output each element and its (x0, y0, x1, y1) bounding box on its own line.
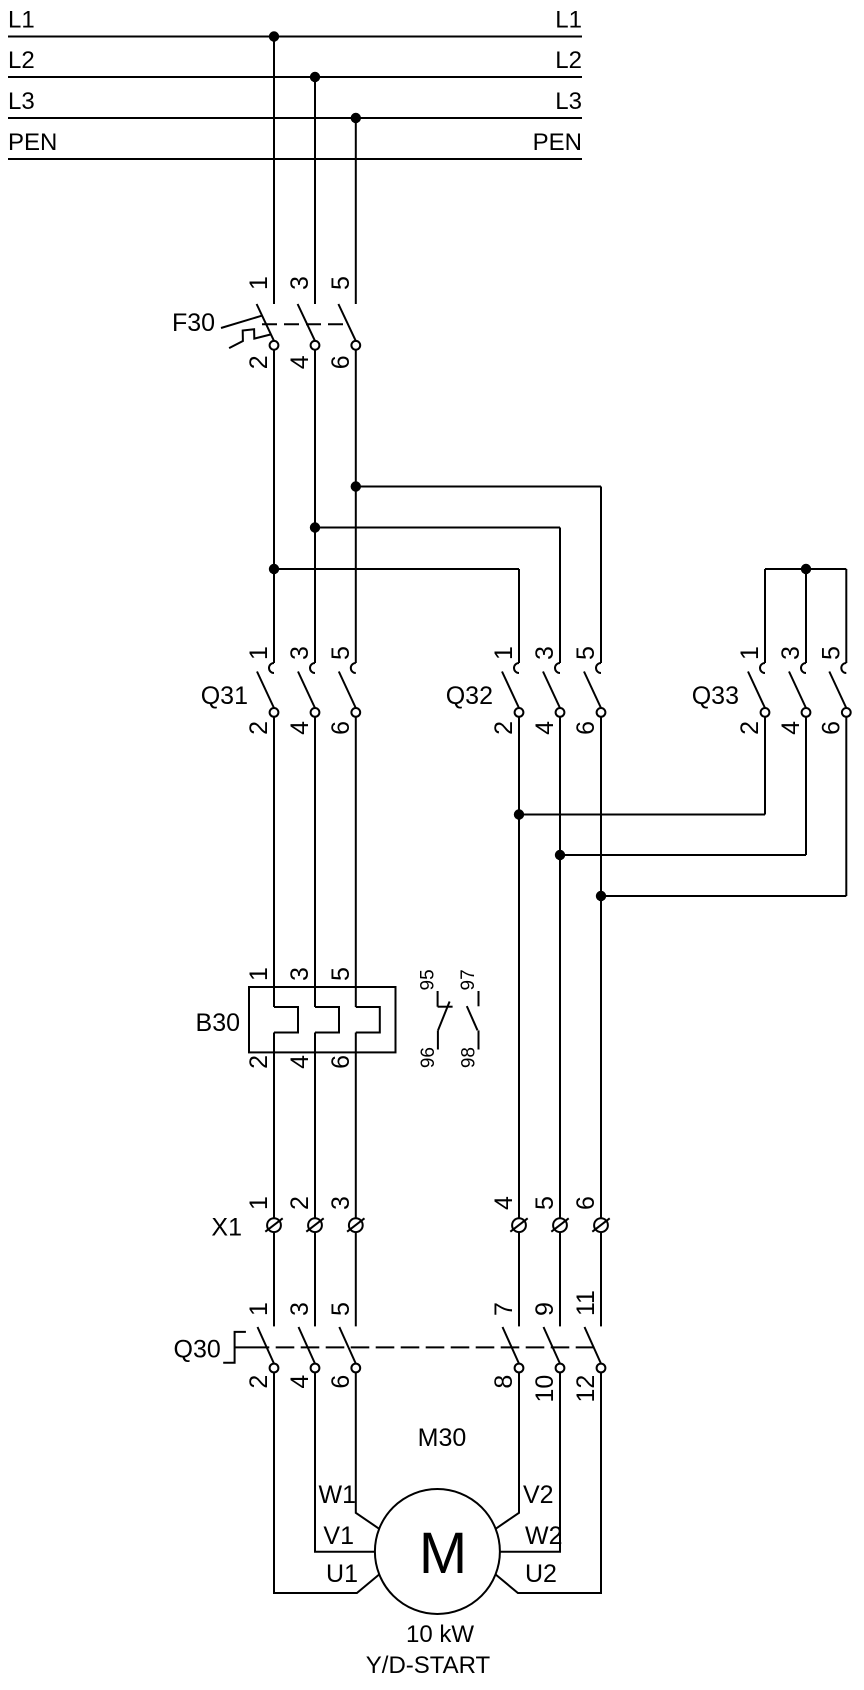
svg-text:4: 4 (286, 721, 314, 735)
svg-text:V1: V1 (323, 1522, 354, 1550)
wire W2 feed (500, 1372, 560, 1551)
svg-text:V2: V2 (523, 1481, 554, 1509)
svg-text:97: 97 (458, 969, 479, 990)
wire (518, 717, 520, 1218)
svg-text:11: 11 (572, 1290, 600, 1316)
wire (273, 1052, 275, 1218)
svg-text:4: 4 (286, 1375, 314, 1389)
svg-text:9: 9 (531, 1302, 559, 1316)
svg-text:3: 3 (531, 646, 559, 660)
svg-text:3: 3 (286, 967, 314, 981)
svg-text:2: 2 (245, 721, 273, 735)
wire (559, 717, 561, 1218)
wire (600, 1232, 602, 1326)
wire (600, 717, 602, 1218)
wire W1 feed (356, 1372, 380, 1529)
delta link wire horizontal (601, 895, 846, 897)
svg-text:L2: L2 (8, 47, 35, 74)
wire (273, 350, 275, 663)
svg-text:96: 96 (418, 1047, 439, 1068)
branch wire vertical to Q32 (518, 569, 520, 663)
Q30 contact 9-10 (531, 1302, 564, 1402)
branch wire vertical to Q32 (600, 487, 602, 664)
svg-text:2: 2 (245, 355, 273, 369)
junction dot at (315,527.5) (310, 522, 320, 532)
wire V1 feed (315, 1372, 375, 1551)
wire (805, 569, 807, 663)
svg-text:2: 2 (286, 1196, 314, 1210)
svg-text:4: 4 (777, 721, 805, 735)
svg-text:2: 2 (736, 721, 764, 735)
branch wire horizontal (274, 568, 519, 570)
svg-text:3: 3 (327, 1196, 355, 1210)
motor circle (375, 1489, 500, 1614)
svg-text:2: 2 (490, 721, 518, 735)
delta link wire vertical to Q33 (845, 717, 847, 896)
Q30 contact 11-12 (572, 1290, 605, 1402)
svg-text:6: 6 (572, 721, 600, 735)
wire (273, 37, 275, 305)
wire (355, 1232, 357, 1326)
svg-text:7: 7 (490, 1302, 518, 1316)
svg-text:10: 10 (531, 1375, 559, 1403)
svg-text:Y/D-START: Y/D-START (366, 1652, 491, 1679)
junction dot star point (801, 564, 811, 574)
delta link wire vertical to Q33 (764, 717, 766, 815)
X1 terminal 4 (490, 1196, 528, 1232)
bus line L2 (8, 76, 582, 78)
X1 terminal 3 (327, 1196, 365, 1232)
svg-text:12: 12 (572, 1375, 600, 1403)
F30 pole contact 5-6 (327, 276, 360, 369)
svg-text:6: 6 (327, 1375, 355, 1389)
svg-text:95: 95 (417, 969, 438, 990)
wire (314, 77, 316, 304)
X1 terminal 1 (245, 1196, 283, 1232)
svg-text:1: 1 (245, 276, 273, 290)
Q33 star point bar (765, 568, 846, 570)
svg-text:4: 4 (531, 721, 559, 735)
svg-text:PEN: PEN (533, 129, 582, 156)
svg-text:Q31: Q31 (201, 682, 248, 710)
svg-text:L3: L3 (8, 88, 35, 115)
F30 pole contact 1-2 (245, 276, 278, 369)
branch wire horizontal (356, 486, 601, 488)
contactor Q33 contact 1-2 (736, 646, 769, 735)
svg-text:98: 98 (459, 1047, 480, 1068)
svg-text:PEN: PEN (8, 129, 57, 156)
bus line L3 (8, 117, 582, 119)
svg-text:6: 6 (572, 1196, 600, 1210)
svg-text:M: M (419, 1521, 467, 1586)
svg-text:F30: F30 (172, 309, 215, 337)
wire U2 feed (495, 1372, 601, 1593)
svg-text:5: 5 (817, 646, 845, 660)
svg-text:5: 5 (572, 646, 600, 660)
svg-text:10 kW: 10 kW (406, 1621, 474, 1648)
junction dot at (274,569.0) (269, 564, 279, 574)
F30 linkage dashed line (262, 323, 348, 325)
wire (273, 717, 275, 987)
wire U1 feed (274, 1372, 380, 1593)
F30 thermal release symbol (229, 329, 270, 348)
junction dot L2 tap (310, 72, 320, 82)
B30 aux NO contact 97-98 (458, 969, 480, 1068)
svg-text:3: 3 (777, 646, 805, 660)
wire (273, 1232, 275, 1326)
B30 aux NC contact 95-96 (417, 969, 452, 1068)
branch wire horizontal (315, 527, 560, 529)
Q30 contact 1-2 (245, 1302, 278, 1389)
contactor Q32 contact 1-2 (490, 646, 523, 735)
wire V2 feed (495, 1372, 519, 1529)
svg-text:2: 2 (245, 1375, 273, 1389)
bus line L1 (8, 36, 582, 38)
svg-text:4: 4 (286, 1055, 314, 1069)
delta link wire horizontal (560, 854, 806, 856)
svg-text:6: 6 (817, 721, 845, 735)
svg-text:1: 1 (245, 646, 273, 660)
svg-text:B30: B30 (196, 1009, 240, 1037)
svg-text:3: 3 (286, 276, 314, 290)
svg-text:L1: L1 (555, 7, 582, 34)
svg-text:Q32: Q32 (446, 682, 493, 710)
B30 outline box (249, 987, 396, 1052)
contactor Q31 contact 3-4 (286, 646, 319, 735)
svg-text:U1: U1 (326, 1560, 358, 1588)
B30 heater element 5-6 (327, 967, 380, 1069)
svg-text:6: 6 (327, 355, 355, 369)
svg-text:2: 2 (245, 1055, 273, 1069)
Q30 linkage dashed line (276, 1346, 595, 1348)
Q30 contact 7-8 (490, 1302, 523, 1389)
svg-text:8: 8 (490, 1375, 518, 1389)
wire (559, 1232, 561, 1326)
wire (314, 717, 316, 987)
svg-text:4: 4 (490, 1196, 518, 1210)
svg-text:5: 5 (327, 1302, 355, 1316)
contactor Q31 contact 1-2 (245, 646, 278, 735)
wire (314, 1232, 316, 1326)
wire (355, 118, 357, 304)
wire (764, 569, 766, 663)
wire (314, 1052, 316, 1218)
svg-text:1: 1 (245, 1196, 273, 1210)
B30 heater element 1-2 (245, 967, 298, 1069)
wire (845, 569, 847, 663)
X1 terminal 6 (572, 1196, 610, 1232)
junction dot L1 tap (269, 31, 279, 41)
F30 leader line (221, 316, 261, 328)
Q30 actuator bracket (223, 1332, 246, 1363)
svg-text:1: 1 (245, 967, 273, 981)
delta link wire horizontal (519, 814, 765, 816)
wire (314, 350, 316, 663)
wire (355, 350, 357, 663)
junction dot at (560,855) (555, 850, 565, 860)
svg-text:6: 6 (327, 721, 355, 735)
svg-text:5: 5 (327, 967, 355, 981)
svg-text:W2: W2 (525, 1522, 563, 1550)
svg-text:Q33: Q33 (692, 682, 739, 710)
svg-text:1: 1 (736, 646, 764, 660)
wire (355, 717, 357, 987)
Q30 contact 3-4 (286, 1302, 319, 1389)
svg-text:M30: M30 (418, 1424, 467, 1452)
contactor Q33 contact 5-6 (817, 646, 850, 735)
junction dot L3 tap (351, 113, 361, 123)
svg-text:4: 4 (286, 355, 314, 369)
svg-text:L1: L1 (8, 7, 35, 34)
contactor Q32 contact 3-4 (531, 646, 564, 735)
svg-text:5: 5 (327, 646, 355, 660)
svg-text:1: 1 (245, 1302, 273, 1316)
B30 heater element 3-4 (286, 967, 339, 1069)
F30 pole contact 3-4 (286, 276, 319, 369)
svg-text:W1: W1 (319, 1481, 357, 1509)
svg-text:Q30: Q30 (174, 1336, 221, 1364)
junction dot at (355.8,486.5) (351, 481, 361, 491)
svg-text:5: 5 (531, 1196, 559, 1210)
contactor Q32 contact 5-6 (572, 646, 605, 735)
junction dot at (519,814.5) (514, 809, 524, 819)
contactor Q31 contact 5-6 (327, 646, 360, 735)
wire (518, 1232, 520, 1326)
svg-text:3: 3 (286, 1302, 314, 1316)
junction dot at (601,896) (596, 891, 606, 901)
svg-text:5: 5 (327, 276, 355, 290)
svg-text:1: 1 (490, 646, 518, 660)
contactor Q33 contact 3-4 (777, 646, 810, 735)
delta link wire vertical to Q33 (805, 717, 807, 855)
X1 terminal 5 (531, 1196, 569, 1232)
wire (355, 1052, 357, 1218)
svg-text:6: 6 (327, 1055, 355, 1069)
Q30 linkage line solid start (235, 1346, 270, 1348)
svg-text:L2: L2 (555, 47, 582, 74)
branch wire vertical to Q32 (559, 528, 561, 664)
X1 terminal 2 (286, 1196, 324, 1232)
svg-text:U2: U2 (525, 1560, 557, 1588)
bus line PEN (8, 158, 582, 160)
Q30 contact 5-6 (327, 1302, 360, 1389)
svg-text:X1: X1 (211, 1214, 242, 1242)
svg-text:L3: L3 (555, 88, 582, 115)
svg-text:3: 3 (286, 646, 314, 660)
